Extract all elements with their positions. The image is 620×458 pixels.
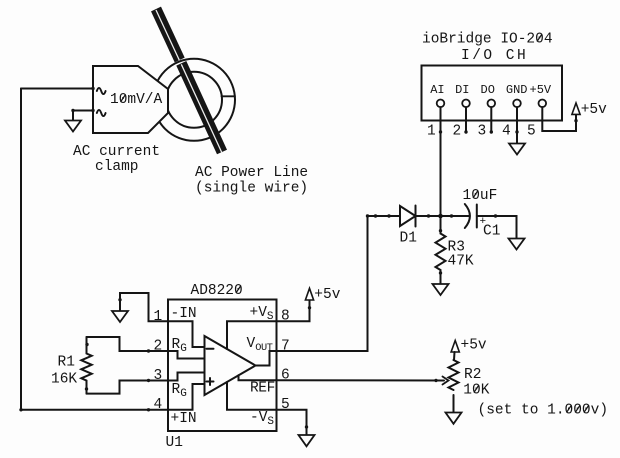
svg-text:10uF: 10uF [463,188,498,204]
svg-text:4: 4 [154,397,163,413]
diode D1 [400,206,416,227]
op-amp internal wire +IN [168,384,205,410]
slash of zero in 10K [474,385,479,393]
slashes of zeros in 1.000v [567,405,589,413]
op-amp plus input sign [207,378,214,385]
op-amp internal wire +VS [227,321,277,349]
svg-text:clamp: clamp [95,159,139,175]
wire R2 top lead [453,352,456,360]
svg-text:3: 3 [154,368,163,384]
svg-text:D1: D1 [400,231,417,247]
op-amp internal wire REF [239,375,277,380]
svg-text:AD8220: AD8220 [191,283,243,299]
svg-text:4: 4 [502,124,511,140]
svg-text:5: 5 [527,124,536,140]
op-amp internal wire -IN [168,321,205,347]
svg-text:10K: 10K [463,383,489,399]
svg-text:1: 1 [154,309,163,325]
op-amp internal wire RG upper [168,351,205,359]
junction AI/D1/R3/C1 [438,214,443,219]
AD8220 box U1 [168,300,277,432]
wire clamp bottom output [73,110,93,112]
svg-text:8: 8 [281,309,290,325]
wire VOUT riser to diode rail [277,216,368,351]
slash of zero in IO-204 [537,34,542,42]
ground (IO-204 GND pin) [509,144,525,155]
wire +5V pin routing [542,107,576,131]
resistor R1 [81,337,91,394]
wire clamp ground stub [72,111,74,121]
wire pin8 +VS to +5v [277,300,310,321]
svg-text:GND: GND [506,83,528,97]
pin DO connector circle [488,100,496,108]
ground (C1) [509,239,525,250]
wire R1 top rail to pin2 [87,337,169,351]
svg-text:7: 7 [281,339,290,355]
AC power line (thick cable) lower segment [181,63,222,153]
wire clamp top output [21,88,93,90]
+5v supply arrow (IO-204) [572,103,580,114]
ioBridge IO-204 box [422,66,563,121]
svg-text:5: 5 [281,397,290,413]
op-amp internal wire -VS [227,382,277,410]
svg-text:3: 3 [478,124,487,140]
junction dots on wires [19,87,577,429]
svg-text:ioBridge IO-204: ioBridge IO-204 [422,32,553,48]
wire DO stub [490,107,492,132]
ground (clamp) [65,121,81,132]
wire left vertical bus [20,89,22,410]
svg-text:1: 1 [427,124,436,140]
wire pin1 -IN external to ground [120,293,168,321]
pin +5V connector circle [539,100,547,108]
svg-text:AC Power Line: AC Power Line [195,165,308,181]
svg-text:+IN: +IN [171,411,197,427]
svg-text:+5V: +5V [530,83,552,97]
svg-text:R2: R2 [464,367,481,383]
ground (R3) [433,284,449,295]
slash of zero in 10mV/A [121,95,126,103]
ground (pin 1) [112,311,128,322]
wire pin4 +IN from left bus [21,409,168,411]
op-amp internal wire RG lower [168,373,205,381]
wire R1 bottom rail to pin3 [87,381,169,394]
op-amp U1 triangle [205,336,256,395]
R2 wiper arrow [443,377,449,385]
+5v supply arrow (R2) [451,341,459,353]
svg-text:-IN: -IN [171,306,197,322]
wire AI (pin 1) down to diode rail [440,107,442,216]
svg-text:10mV/A: 10mV/A [110,92,163,108]
svg-text:47K: 47K [448,254,474,270]
wire C1 to ground corner [477,216,517,239]
slash of zero in 10uF [473,191,478,199]
svg-text:DI: DI [455,83,469,97]
pin GND connector circle [513,100,521,108]
svg-text:16K: 16K [51,372,77,388]
capacitor C1 [465,204,477,228]
+5v supply arrow (pin 8) [305,288,313,300]
svg-text:(single wire): (single wire) [195,181,308,197]
current clamp ring (transformer core) [153,59,235,141]
op-amp internal wire VOUT [256,351,277,366]
resistor R3 [436,216,446,284]
svg-text:+5v: +5v [314,287,340,303]
svg-text:REF: REF [250,381,275,397]
svg-text:AC current: AC current [73,144,160,160]
pin AI connector circle [437,100,445,108]
svg-text:DO: DO [481,83,495,97]
wire diode anode rail [368,215,401,217]
clamp AC symbol bottom (~) [97,110,106,116]
svg-text:I/O CH: I/O CH [461,48,528,64]
wire diode cathode to capacitor [416,215,470,217]
AC power line (thick cable) upper segment [156,9,180,61]
wire pin6 REF to R2 wiper [277,379,445,381]
svg-text:R1: R1 [58,355,75,371]
svg-text:AI: AI [430,83,444,97]
svg-text:+5v: +5v [581,102,607,118]
svg-text:2: 2 [453,124,462,140]
ground (pin 5) [299,435,315,446]
wire GND pin stub [516,107,518,143]
pin DI connector circle [462,100,470,108]
clamp AC symbol top (~) [97,88,106,94]
svg-text:U1: U1 [166,435,183,451]
ground (R2) [446,413,462,424]
op-amp minus input sign [207,348,214,350]
slash of zero in AD8220 [236,286,241,294]
svg-text:+5v: +5v [461,338,487,354]
wire pin5 -VS to ground [277,410,307,435]
svg-text:C1: C1 [483,224,500,240]
AC current clamp body [93,66,168,133]
wire DI stub [465,107,467,132]
potentiometer R2 [449,360,459,413]
svg-text:6: 6 [281,368,290,384]
svg-text:2: 2 [154,339,163,355]
